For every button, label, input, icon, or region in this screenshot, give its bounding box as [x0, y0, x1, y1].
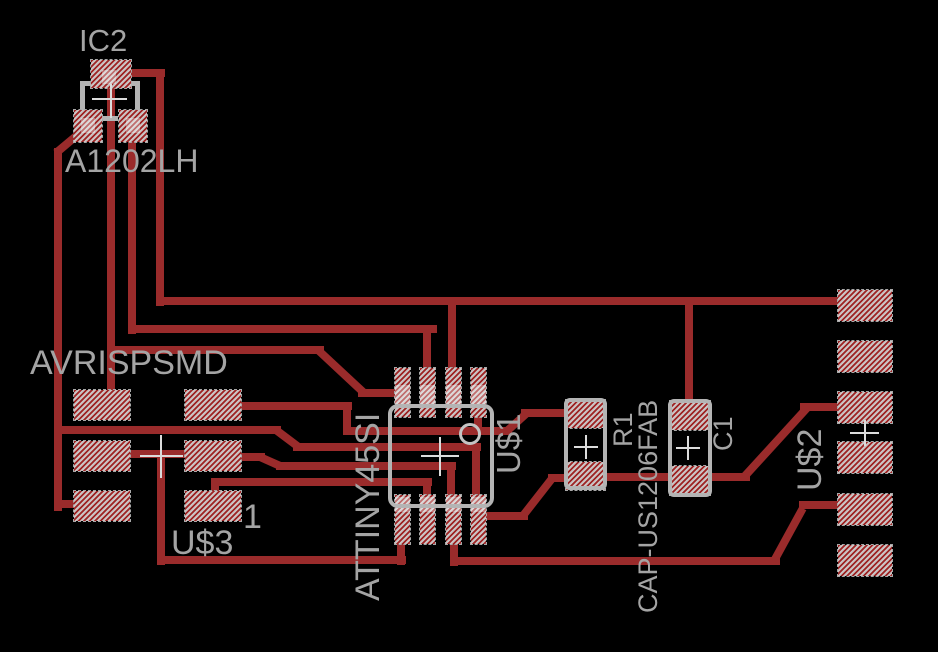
- IC2 silkscreen outline: [80, 81, 140, 86]
- U$1 bottom pad 3: [446, 495, 461, 544]
- wire T2: IC2 right pad vertical: [128, 130, 136, 334]
- wire T8: horizontal to U$1: [211, 478, 432, 486]
- wire T3: branch down to U$1 top pad 3: [448, 297, 456, 372]
- wire T11: into R1 bottom pad: [548, 474, 570, 482]
- label IC2: [79, 25, 127, 56]
- U$2 pad 1: [838, 290, 892, 321]
- U$3 pad (2,3): [185, 491, 241, 521]
- U$3 pad (1,2): [74, 441, 130, 471]
- wire T12: R1 bottom to C1 bottom: [600, 473, 675, 481]
- U$2 pad 4: [838, 442, 892, 473]
- U$1 top pad 3: [446, 368, 461, 417]
- wire T14: into U$2 pad 5: [799, 501, 845, 509]
- label ATTINY45SI (vertical): [351, 413, 385, 601]
- U$1 top pad 4: [471, 368, 486, 417]
- wire T4: left vertical: [54, 148, 62, 511]
- wire T4: diagonal from IC2 left pad: [53, 131, 81, 156]
- U$2 origin cross: [850, 432, 879, 434]
- U$1 bottom pad 2: [420, 495, 435, 544]
- wire T4: stub into U$3 pad(1,3): [54, 500, 82, 508]
- U$2 pad 3: [838, 392, 892, 423]
- wire T11: diagonal up to R1: [519, 475, 556, 519]
- label R1 (vertical): [610, 412, 637, 447]
- wire T7: drop into U$1 bottom pad 3: [447, 462, 455, 500]
- U$1 pin-1 circle marker: [459, 423, 481, 445]
- U$2 pad 2: [838, 341, 892, 372]
- wire T7: step diagonal: [258, 453, 281, 469]
- IC2 origin cross: [92, 98, 127, 100]
- wire T9: from U$3 pad(2,1) right: [238, 402, 352, 410]
- wire T3: branch down to C1 top pad: [685, 297, 693, 405]
- wire T7: stub from U$3 pad(2,2): [235, 453, 265, 461]
- U$3 pad (1,1): [74, 390, 130, 420]
- wire stub: U$1 top pad 4 down to T9 line: [474, 412, 482, 435]
- wire T10: branch from T1: [107, 346, 324, 354]
- label AVRISPSMD: [30, 346, 228, 380]
- wire T3: IC2 top pad stub right: [131, 69, 165, 77]
- wire T6: vertical down from cross junction: [157, 452, 165, 565]
- wire T4: step diagonal: [274, 427, 301, 450]
- wire T13: from C1 bottom right: [705, 473, 750, 481]
- wire T13: into U$2 pad 3: [800, 403, 845, 411]
- label U$2 (vertical): [793, 429, 827, 491]
- wire T11: from U$1 bottom pad 4 right: [480, 512, 528, 520]
- wire T9: into R1 top pad: [521, 409, 570, 417]
- label U$3: [171, 526, 233, 560]
- R1 top pad: [566, 400, 605, 428]
- R1 origin cross: [574, 446, 598, 448]
- wire T14: bottom bus: [450, 557, 780, 565]
- wire T4: long horizontal between U$3 rows: [54, 426, 281, 434]
- U$1 top pad 2: [420, 368, 435, 417]
- wire T7: horizontal to U$1: [276, 462, 456, 470]
- R1 outline: [564, 398, 607, 490]
- wire T8: drop into U$1 bottom pad 2: [423, 478, 431, 500]
- label C1 (vertical): [710, 416, 737, 451]
- IC2 pad left: [74, 110, 102, 142]
- wire T3: top bus to U$2 pad 1: [156, 297, 845, 305]
- wire T3: vertical down: [156, 69, 164, 306]
- R1 bottom pad: [566, 462, 605, 490]
- wire T4: drop into U$1 bottom pad 4: [472, 443, 480, 500]
- wire T1: IC2 top pad down to U$3 pad(1,1): [107, 74, 115, 396]
- label A1202LH: [65, 145, 198, 177]
- U$3 pad (2,2): [185, 441, 241, 471]
- U$3 pad (1,3): [74, 491, 130, 521]
- C1 outline: [668, 399, 712, 497]
- U$1 bottom pad 4: [471, 495, 486, 544]
- C1 top pad: [670, 401, 710, 430]
- wire T9: jog down: [343, 402, 351, 435]
- wire T2: horizontal to SOIC: [128, 325, 437, 333]
- label 1 (pin1 of U$3): [243, 500, 262, 534]
- wire T13: diagonal up to U$2: [741, 406, 810, 480]
- U$2 pad 5: [838, 494, 892, 525]
- wire T14: diagonal up to U$2: [770, 506, 806, 562]
- wire T9: horizontal across U$1: [343, 427, 512, 435]
- wire T2: drop into U$1 top pad 2: [423, 325, 431, 372]
- wire T8: stub up from U$3 pad(2,3): [211, 478, 219, 495]
- U$1 silkscreen outline: [388, 404, 494, 508]
- U$1 origin cross: [421, 455, 459, 457]
- wire T4: horizontal to U$1: [293, 443, 481, 451]
- IC2 pad right: [119, 110, 147, 142]
- wire T6: riser into U$1 bottom pad 1: [397, 540, 405, 565]
- C1 bottom pad: [670, 466, 710, 495]
- IC2 pad top: [91, 60, 131, 88]
- wire T14: drop from U$1 bottom pad 3: [450, 540, 458, 566]
- C1 origin cross: [676, 447, 700, 449]
- wire T5: U$3 pad(1,2) to pad(2,2): [100, 450, 210, 458]
- U$3 pad (2,1): [185, 390, 241, 420]
- wire T9: diagonal up: [504, 410, 529, 434]
- U$1 bottom pad 1: [395, 495, 410, 544]
- wire T10: into U$1 top pad 1: [358, 389, 400, 397]
- U$2 pad 6: [838, 545, 892, 576]
- U$1 top pad 1: [395, 368, 410, 417]
- wire T6: bottom-left bus: [157, 556, 406, 564]
- label U$1 (vertical): [492, 413, 525, 474]
- U$3 origin cross: [140, 455, 183, 457]
- wire T10: diagonal down: [315, 347, 367, 396]
- label CAP-US1206FAB (vertical): [635, 400, 662, 613]
